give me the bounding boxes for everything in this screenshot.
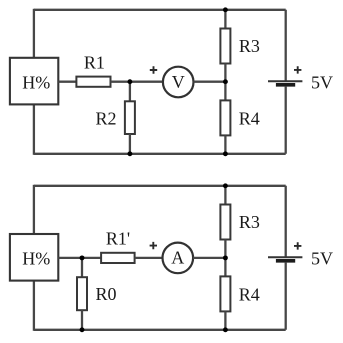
svg-text:H%: H% bbox=[22, 249, 50, 269]
wire top circuit: left branch upper bbox=[33, 9, 35, 58]
node: R4 bottom junction (bottom circuit) bbox=[223, 327, 228, 332]
node: R0 bottom junction bbox=[80, 327, 85, 332]
wire R0 branch upper bbox=[81, 258, 83, 277]
wire voltmeter to node bbox=[194, 81, 226, 83]
wire top circuit: left branch lower bbox=[33, 104, 35, 154]
wire R3' branch upper bbox=[224, 186, 226, 205]
wire R0 branch lower bbox=[81, 310, 83, 330]
svg-text:R3: R3 bbox=[239, 36, 260, 56]
resistor R4 bbox=[220, 100, 230, 135]
wire R4 lower bbox=[224, 135, 226, 153]
wire R3 to node (bottom) bbox=[224, 240, 226, 277]
svg-text:R0: R0 bbox=[95, 284, 116, 304]
ammeter A1 circle bbox=[163, 243, 194, 274]
wire top circuit: bottom rail bbox=[34, 153, 286, 155]
wire R2 branch upper bbox=[129, 82, 131, 102]
source block H% (bottom) bbox=[10, 234, 58, 281]
wire battery branch upper (top circuit) bbox=[285, 10, 287, 81]
resistor R1' bbox=[101, 253, 135, 263]
wire battery branch lower (top circuit) bbox=[285, 87, 287, 154]
wire battery branch lower (bottom circuit) bbox=[285, 263, 287, 330]
op: plus sign of voltmeter bbox=[150, 66, 157, 73]
node: R2 bottom junction bbox=[127, 151, 132, 156]
wire ammeter to node bbox=[193, 257, 225, 259]
battery BT2 positive plate bbox=[268, 256, 302, 258]
battery plus sign (top) bbox=[294, 66, 301, 73]
resistor R4 (bottom) bbox=[220, 276, 230, 311]
wire H% to R1 bbox=[58, 81, 76, 83]
svg-text:R3: R3 bbox=[239, 212, 260, 232]
battery BT2 negative plate bbox=[276, 259, 295, 263]
svg-text:R4: R4 bbox=[239, 108, 260, 128]
wire R3 to node bbox=[224, 64, 226, 101]
wire top circuit: top rail bbox=[34, 9, 286, 11]
voltmeter V1 circle bbox=[163, 67, 194, 98]
wire R2 branch lower bbox=[129, 134, 131, 154]
wire battery branch upper (bottom circuit) bbox=[285, 186, 287, 257]
svg-text:A: A bbox=[171, 248, 184, 268]
wire bottom circuit: top rail bbox=[34, 185, 286, 187]
svg-text:V: V bbox=[172, 72, 185, 92]
node: R3 top junction (top circuit) bbox=[223, 7, 228, 12]
svg-text:H%: H% bbox=[22, 72, 50, 92]
wire bottom circuit: left branch upper bbox=[33, 185, 35, 234]
ammeter plus sign bbox=[150, 242, 157, 249]
resistor R3 (bottom) bbox=[220, 205, 230, 240]
wire bottom circuit: bottom rail bbox=[34, 329, 286, 331]
battery BT1 negative plate bbox=[276, 83, 295, 87]
wire R1' to ammeter bbox=[135, 257, 163, 259]
wire R4 lower (bottom) bbox=[224, 311, 226, 329]
wire H% to R1' bbox=[58, 257, 101, 259]
wire bottom circuit: left branch lower bbox=[33, 281, 35, 331]
svg-text:5V: 5V bbox=[311, 249, 333, 269]
wire R3 branch upper bbox=[224, 10, 226, 29]
svg-text:5V: 5V bbox=[311, 73, 333, 93]
wire R1 to voltmeter bbox=[111, 81, 163, 83]
svg-text:R2: R2 bbox=[95, 109, 116, 129]
resistor R3 bbox=[220, 29, 230, 64]
resistor R1 bbox=[76, 77, 110, 87]
node: R1/R2/V junction bbox=[127, 79, 132, 84]
node: R3 top junction (bottom circuit) bbox=[223, 183, 228, 188]
node: A/R3/R4 junction bbox=[223, 255, 228, 260]
svg-text:R1: R1 bbox=[84, 53, 105, 73]
resistor R2 bbox=[125, 101, 135, 134]
resistor R0 bbox=[77, 277, 87, 310]
svg-text:R4: R4 bbox=[239, 284, 260, 304]
source block H% (top) bbox=[10, 58, 58, 105]
node: R4 bottom junction bbox=[223, 151, 228, 156]
battery BT1 positive plate bbox=[268, 80, 302, 82]
battery plus sign (bottom) bbox=[294, 242, 301, 249]
node: R0 top junction bbox=[80, 255, 85, 260]
node: V/R3/R4 junction bbox=[223, 79, 228, 84]
svg-text:R1': R1' bbox=[106, 228, 130, 248]
